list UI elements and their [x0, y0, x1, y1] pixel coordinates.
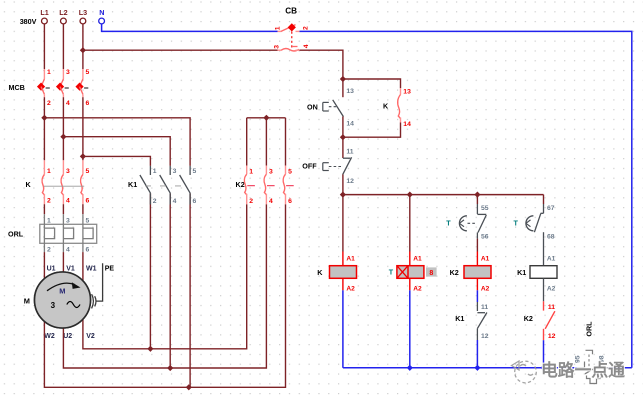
svg-text:A2: A2 [481, 286, 490, 293]
neutral rail [343, 367, 577, 369]
MCB pole 5-6 [82, 69, 84, 79]
svg-text:3: 3 [66, 168, 70, 175]
ORL heater element 3-4 [62, 204, 64, 214]
svg-text:V2: V2 [86, 333, 95, 340]
svg-text:5: 5 [86, 69, 90, 76]
MCB pole 1-2 [43, 69, 45, 79]
MCB linkage dash [46, 87, 50, 89]
node star point [263, 115, 269, 121]
timed contact T 67-68 (NO on-delay) [543, 204, 545, 213]
svg-text:L3: L3 [79, 8, 87, 17]
svg-text:1: 1 [47, 69, 51, 76]
node L3 tap to CB pole 2 [80, 47, 86, 53]
motor body overlay [35, 272, 91, 328]
svg-text:13: 13 [346, 88, 354, 95]
svg-text:4: 4 [173, 198, 177, 205]
wire L1 to MCB [43, 24, 45, 69]
node neutral K1 [540, 365, 546, 371]
K1 power contact 1-2 [149, 166, 151, 175]
svg-text:A1: A1 [481, 256, 490, 263]
svg-text:1: 1 [275, 26, 282, 30]
svg-text:U2: U2 [63, 333, 72, 340]
K2 power contact 1-2 [246, 166, 248, 175]
node ON/K parallel [340, 134, 346, 140]
node control branch [340, 76, 346, 82]
wire L3 tap to CB [83, 49, 278, 51]
svg-text:56: 56 [481, 233, 489, 240]
svg-text:MCB: MCB [9, 83, 25, 92]
svg-text:11: 11 [481, 304, 488, 311]
svg-text:11: 11 [346, 149, 353, 156]
wire PE to motor frame [96, 263, 102, 301]
CB pole 1-2 contact [278, 30, 282, 32]
wire rail to T coil [409, 195, 411, 252]
svg-text:3: 3 [269, 168, 273, 175]
svg-text:3: 3 [66, 69, 70, 76]
svg-text:6: 6 [86, 197, 90, 204]
svg-text:T: T [446, 218, 451, 227]
svg-text:N: N [99, 8, 104, 17]
wire K2 interlock to neutral rail [543, 340, 545, 368]
svg-text:K1: K1 [455, 314, 464, 323]
svg-text:CB: CB [285, 7, 297, 16]
svg-text:A2: A2 [547, 286, 556, 293]
svg-text:4: 4 [66, 197, 70, 204]
svg-text:A2: A2 [346, 286, 355, 293]
MCB linkage dash [84, 87, 88, 89]
wire K1 pin2 down [149, 193, 151, 349]
MCB linkage dash [65, 87, 69, 89]
svg-text:2: 2 [47, 247, 51, 254]
wire to K aux branch [343, 79, 401, 88]
star point bridge wire [247, 117, 286, 119]
svg-text:6: 6 [86, 247, 90, 254]
svg-text:67: 67 [547, 205, 555, 212]
svg-text:12: 12 [346, 178, 354, 185]
wire K aux to node [343, 123, 401, 138]
motor M 3~ [35, 272, 91, 328]
timer coil T A1-A2 (energized) [409, 252, 411, 266]
svg-text:电路一点通: 电路一点通 [541, 360, 625, 380]
svg-text:1: 1 [47, 217, 51, 224]
svg-text:6: 6 [86, 100, 90, 107]
MCB pole 3-4 [62, 69, 64, 79]
wire L2 MCB to K with tap node [62, 97, 64, 160]
svg-text:A1: A1 [413, 256, 422, 263]
wire L2 tap to K1 pin3 [63, 137, 170, 166]
wire K coil to neutral rail [342, 290, 344, 368]
svg-text:W1: W1 [86, 266, 97, 273]
svg-text:M: M [59, 287, 65, 296]
svg-text:2: 2 [47, 100, 51, 107]
ORL heater element 5-6 [82, 204, 84, 214]
K2 power contact 3-4 [265, 166, 267, 175]
svg-text:K: K [317, 268, 323, 277]
svg-text:1: 1 [249, 168, 253, 175]
svg-text:A1: A1 [346, 256, 355, 263]
svg-text:8: 8 [429, 270, 433, 277]
wire L3 MCB to K with tap node [82, 97, 84, 160]
node U2 / K1 pin4 [167, 365, 173, 371]
svg-text:ORL: ORL [585, 321, 594, 337]
svg-text:K2: K2 [236, 180, 245, 189]
svg-text:12: 12 [548, 333, 556, 340]
timer preset value 8 [426, 267, 437, 276]
K power contact 5-6 [82, 160, 84, 174]
svg-text:M: M [24, 297, 30, 306]
svg-text:L2: L2 [59, 8, 67, 17]
wire motor W2 to K2 pin6 [44, 204, 285, 387]
svg-text:2: 2 [303, 26, 310, 30]
svg-text:W2: W2 [44, 333, 55, 340]
svg-text:A2: A2 [413, 286, 422, 293]
wire K2 coil to K1 interlock [476, 290, 478, 302]
K2 linkage dash [267, 185, 275, 187]
wire CB pole2 to control junction [300, 50, 343, 79]
svg-text:4: 4 [269, 198, 273, 205]
wire L3 tap to K1 pin1 [83, 156, 150, 166]
wire CB pole1 to right edge (neutral) [300, 31, 632, 367]
svg-text:U1: U1 [47, 266, 56, 273]
K power contact 1-2 [43, 160, 45, 174]
svg-text:6: 6 [288, 198, 292, 205]
svg-text:4: 4 [66, 100, 70, 107]
svg-text:PE: PE [105, 266, 115, 273]
wire N to CB pole 1 [102, 24, 278, 32]
ORL heater element 1-2 [43, 204, 45, 214]
K1 power contact 3-4 [169, 166, 171, 175]
wire motor U2 to K2 pin4 [63, 204, 266, 368]
svg-text:V1: V1 [66, 266, 75, 273]
ORL body [40, 224, 97, 243]
svg-text:K2: K2 [524, 314, 533, 323]
svg-text:11: 11 [548, 304, 555, 311]
wire L3 to MCB [82, 24, 84, 69]
svg-text:3: 3 [66, 217, 70, 224]
node rail K2 branch [474, 192, 480, 198]
svg-text:A1: A1 [547, 256, 556, 263]
svg-text:ON: ON [307, 102, 318, 111]
pushbutton OFF 11-12 [342, 137, 344, 158]
svg-text:OFF: OFF [302, 162, 317, 171]
svg-text:ORL: ORL [8, 229, 24, 238]
svg-text:5: 5 [288, 168, 292, 175]
svg-text:4: 4 [303, 44, 310, 48]
contact K2 aux 11-12 (NC interlock, open) [543, 301, 545, 310]
svg-text:380V: 380V [20, 17, 37, 26]
svg-text:13: 13 [403, 89, 411, 96]
svg-text:3: 3 [173, 168, 177, 175]
svg-text:K1: K1 [517, 268, 526, 277]
svg-text:1: 1 [47, 168, 51, 175]
svg-text:T: T [389, 268, 394, 277]
svg-text:K1: K1 [128, 180, 137, 189]
wire K1 pin4 down [169, 193, 171, 368]
svg-text:68: 68 [547, 233, 555, 240]
watermark logo [512, 361, 537, 383]
svg-text:K: K [26, 180, 32, 189]
timed contact T 55-56 (NC on-delay) [476, 204, 478, 214]
coil K2 A1-A2 (energized) [476, 252, 478, 266]
node neutral T [407, 365, 413, 371]
wire rail to T contact 67 [543, 195, 545, 204]
wire rail to T contact 55 [476, 195, 478, 204]
node rail K coil [340, 192, 346, 198]
wire rail to K coil [342, 195, 344, 252]
pushbutton ON 13-14 [342, 79, 344, 97]
svg-text:1: 1 [153, 168, 157, 175]
svg-text:L1: L1 [40, 8, 48, 17]
svg-text:5: 5 [86, 168, 90, 175]
svg-text:5: 5 [193, 168, 197, 175]
node W2 / K1 pin6 [186, 384, 192, 390]
K1 contacts linkage [145, 185, 187, 187]
svg-text:6: 6 [193, 198, 197, 205]
contact K1 aux 11-12 (NO interlock) [476, 302, 478, 311]
wire K1 pin6 down [189, 193, 191, 387]
wire L2 to MCB [62, 24, 64, 69]
control rail [343, 194, 544, 196]
K2 linkage dash [247, 185, 255, 187]
svg-text:T: T [514, 218, 519, 227]
node neutral K2 [474, 365, 480, 371]
svg-text:14: 14 [346, 121, 354, 128]
CB linkage [291, 32, 293, 48]
wire L1 tap to K1 pin5 [44, 118, 190, 166]
wire T coil to neutral rail [409, 290, 411, 368]
svg-text:2: 2 [153, 198, 157, 205]
wire motor V2 to K2 pin2 [83, 204, 247, 349]
K1 power contact 5-6 [189, 166, 191, 175]
wire K1 interlock to neutral rail [476, 340, 478, 368]
svg-text:12: 12 [481, 333, 489, 340]
svg-text:K2: K2 [450, 268, 459, 277]
K power contact 3-4 [62, 160, 64, 174]
K2 linkage dash [286, 185, 294, 187]
svg-text:5: 5 [86, 217, 90, 224]
wire 56 to K2 coil [476, 239, 478, 252]
svg-text:K: K [383, 102, 389, 111]
svg-text:2: 2 [249, 198, 253, 205]
svg-text:3: 3 [51, 301, 56, 310]
svg-text:55: 55 [481, 205, 489, 212]
node rail T coil [407, 192, 413, 198]
svg-text:2: 2 [47, 197, 51, 204]
wire L1 MCB to K with tap node [43, 97, 45, 160]
K contacts linkage [44, 185, 85, 187]
svg-text:14: 14 [403, 121, 411, 128]
svg-text:3: 3 [274, 45, 281, 49]
K2 power contact 5-6 [285, 166, 287, 175]
wire 68 to K1 coil [543, 239, 545, 266]
coil K A1-A2 (energized) [342, 252, 344, 266]
wire ORL aux to right edge [608, 367, 632, 369]
CB pole 3-4 contact [278, 49, 282, 51]
svg-text:4: 4 [66, 247, 70, 254]
node V2 / K1 pin2 [147, 346, 153, 352]
